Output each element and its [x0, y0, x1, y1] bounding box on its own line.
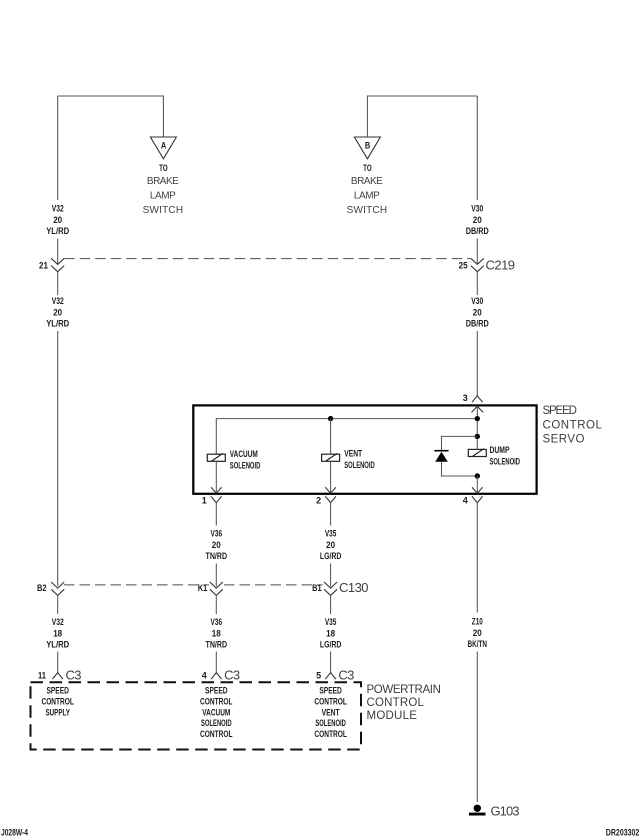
svg-text:MODULE: MODULE [367, 710, 419, 722]
svg-text:DUMP: DUMP [490, 445, 510, 455]
label POWERTRAIN CONTROL MODULE [367, 684, 443, 722]
svg-text:1: 1 [202, 496, 207, 506]
svg-text:SERVO: SERVO [543, 434, 587, 446]
svg-text:3: 3 [463, 393, 468, 403]
triangle B (to brake lamp switch) [354, 137, 380, 159]
diode CR1 anode triangle [435, 452, 448, 462]
connector C130 cavity B1 chevron [324, 582, 337, 595]
pin 3 fork connector [472, 396, 483, 402]
svg-text:20: 20 [473, 628, 482, 638]
svg-text:B2: B2 [37, 583, 47, 593]
svg-text:POWERTRAIN: POWERTRAIN [367, 684, 443, 696]
svg-text:SPEED: SPEED [543, 405, 579, 417]
wire [330, 564, 332, 587]
svg-text:V32: V32 [52, 617, 64, 627]
svg-text:20: 20 [53, 215, 62, 225]
triangle A (to brake lamp switch) [150, 137, 176, 159]
svg-text:SWITCH: SWITCH [347, 205, 389, 216]
wire Z10 to ground [476, 652, 478, 803]
svg-text:CONTROL: CONTROL [200, 729, 233, 739]
svg-text:V36: V36 [211, 529, 223, 539]
svg-text:BRAKE: BRAKE [351, 176, 384, 187]
dump solenoid coil symbol [468, 449, 486, 457]
svg-text:SOLENOID: SOLENOID [490, 457, 521, 467]
ground G103 symbol [469, 805, 486, 816]
node junction dot at dump bus [475, 416, 480, 421]
label V36 20 TN/RD [206, 529, 228, 562]
node junction dot diode top [475, 434, 480, 439]
wire servo internal bus horizontal [216, 419, 477, 455]
svg-text:21: 21 [39, 261, 48, 271]
arrowhead into box at pin 3 [472, 406, 484, 412]
svg-text:YL/RD: YL/RD [46, 226, 69, 236]
wire [476, 239, 478, 264]
wire [215, 564, 217, 587]
label SPEED CONTROL VACUUM SOLENOID CONTROL [200, 686, 233, 740]
svg-text:DR203302: DR203302 [606, 828, 640, 838]
svg-text:V35: V35 [325, 529, 337, 539]
wire top-left horizontal V32 to triangle A [58, 96, 164, 137]
svg-text:11: 11 [38, 671, 46, 681]
connector C130 cavity B2 chevron [51, 582, 64, 595]
svg-text:TN/RD: TN/RD [206, 551, 228, 561]
label V30 20 DB/RD (below C219) [466, 296, 489, 329]
C130 dashed line right segment [224, 584, 323, 586]
wire vent branch vertical [330, 419, 332, 455]
svg-text:VACUUM: VACUUM [202, 707, 230, 717]
connector C130 cavity K1 chevron [210, 582, 223, 595]
arrowhead at box edge pin 2 [325, 487, 336, 493]
arrowhead at box edge pin 4 [472, 487, 483, 493]
wire left vertical V32 middle [57, 272, 59, 295]
label V30 20 DB/RD (above C219) [466, 204, 489, 237]
wire pin4 Z10 upper [476, 503, 478, 613]
wire [57, 239, 59, 264]
svg-text:20: 20 [212, 540, 221, 550]
svg-text:V35: V35 [325, 617, 337, 627]
svg-text:BK/TN: BK/TN [468, 639, 488, 649]
svg-text:20: 20 [53, 307, 62, 317]
svg-text:SPEED: SPEED [205, 686, 228, 696]
svg-text:20: 20 [473, 215, 482, 225]
svg-text:SPEED: SPEED [319, 686, 342, 696]
svg-text:5: 5 [316, 671, 321, 681]
svg-text:TO: TO [363, 163, 372, 173]
wire pin2 V35 below C130 [330, 595, 332, 614]
svg-text:DB/RD: DB/RD [466, 226, 489, 236]
svg-text:K1: K1 [198, 583, 208, 593]
label VACUUM SOLENOID [230, 449, 261, 470]
label V35 20 LG/RD [320, 529, 342, 562]
wire [57, 652, 59, 673]
node junction dot diode bottom [475, 473, 480, 478]
label V32 18 YL/RD [46, 617, 69, 650]
svg-text:V30: V30 [471, 296, 483, 306]
label V36 18 TN/RD [206, 617, 228, 650]
C130 dashed line left segment [64, 584, 209, 586]
svg-text:B1: B1 [312, 583, 322, 593]
svg-text:LG/RD: LG/RD [320, 551, 342, 561]
svg-text:V32: V32 [52, 296, 64, 306]
svg-text:YL/RD: YL/RD [46, 640, 69, 650]
svg-text:LAMP: LAMP [354, 191, 381, 202]
wire vacuum solenoid lower lead [215, 461, 217, 493]
svg-text:4: 4 [463, 496, 468, 506]
svg-text:LAMP: LAMP [150, 191, 177, 202]
C3 fork connector cavity 4 [211, 673, 222, 680]
svg-text:V30: V30 [471, 204, 483, 214]
label V35 18 LG/RD [320, 617, 342, 650]
svg-text:C3: C3 [66, 668, 84, 683]
svg-text:2: 2 [316, 496, 321, 506]
svg-text:TN/RD: TN/RD [206, 640, 228, 650]
svg-text:B: B [365, 141, 371, 151]
label TO BRAKE LAMP SWITCH (left) [143, 163, 185, 216]
svg-text:SUPPLY: SUPPLY [45, 707, 70, 717]
C3 fork connector cavity 5 [325, 673, 336, 680]
svg-text:4: 4 [202, 671, 207, 681]
svg-text:DB/RD: DB/RD [466, 319, 489, 329]
vacuum solenoid coil symbol [207, 453, 225, 461]
label TO BRAKE LAMP SWITCH (right) [347, 163, 389, 216]
svg-text:SWITCH: SWITCH [143, 205, 185, 216]
node junction dot at vent branch [328, 416, 333, 421]
connector C219 cavity 21 chevron [51, 258, 64, 271]
C3 fork connector cavity 11 [52, 673, 63, 680]
wire diode top link [442, 436, 478, 450]
wire left V32 below C130 [57, 595, 59, 614]
wire [215, 652, 217, 673]
svg-text:V32: V32 [52, 204, 64, 214]
wire top-right horizontal V30 to triangle B [367, 96, 477, 137]
C219 dashed line [64, 258, 470, 260]
svg-text:J028W-4: J028W-4 [1, 828, 28, 838]
wire right vertical V30 to servo pin 3 [476, 331, 478, 396]
wire right vertical V30 upper [476, 96, 478, 200]
label SPEED CONTROL SERVO [543, 405, 604, 446]
label DUMP SOLENOID [490, 445, 521, 467]
svg-text:CONTROL: CONTROL [367, 697, 426, 709]
wire left vertical V32 upper [57, 96, 59, 200]
powertrain control module box (dashed) [31, 682, 362, 749]
svg-text:CONTROL: CONTROL [41, 696, 74, 706]
svg-text:TO: TO [159, 163, 168, 173]
diode CR1 cathode bar [434, 450, 448, 452]
vent solenoid coil symbol [322, 453, 340, 461]
label V32 20 YL/RD (above C219) [46, 204, 69, 237]
pin 4 fork connector below box [472, 496, 483, 502]
wire pin1 lead [215, 503, 217, 526]
label SPEED CONTROL VENT SOLENOID CONTROL [314, 686, 347, 740]
svg-text:C3: C3 [224, 668, 242, 683]
pin 1 fork connector below box [211, 496, 222, 502]
svg-text:VENT: VENT [344, 449, 362, 459]
svg-text:CONTROL: CONTROL [314, 729, 347, 739]
svg-text:18: 18 [326, 628, 335, 638]
label VENT SOLENOID [344, 449, 375, 470]
svg-text:20: 20 [326, 540, 335, 550]
svg-text:SOLENOID: SOLENOID [230, 460, 261, 470]
arrowhead at box edge pin 1 [211, 487, 222, 493]
svg-text:20: 20 [473, 307, 482, 317]
svg-text:18: 18 [53, 628, 62, 638]
label SPEED CONTROL SUPPLY [41, 686, 74, 718]
svg-text:A: A [161, 141, 167, 151]
svg-text:G103: G103 [491, 804, 522, 819]
svg-text:Z10: Z10 [472, 617, 483, 627]
svg-text:BRAKE: BRAKE [147, 176, 180, 187]
svg-text:18: 18 [212, 628, 221, 638]
svg-text:V36: V36 [211, 617, 223, 627]
svg-text:C130: C130 [339, 580, 370, 595]
wire pin1 V36 below C130 [215, 595, 217, 614]
wire diode bottom link [442, 462, 478, 476]
svg-text:VACUUM: VACUUM [230, 449, 258, 459]
wire vent solenoid lower lead [330, 461, 332, 493]
pin 2 fork connector below box [325, 496, 336, 502]
connector C219 cavity 25 chevron [471, 258, 484, 271]
svg-text:LG/RD: LG/RD [320, 640, 342, 650]
svg-text:SOLENOID: SOLENOID [315, 718, 346, 728]
wire servo dump branch vertical [476, 406, 478, 449]
svg-text:C3: C3 [338, 668, 356, 683]
label Z10 20 BK/TN [468, 617, 488, 650]
svg-text:SOLENOID: SOLENOID [344, 460, 375, 470]
svg-text:CONTROL: CONTROL [200, 696, 233, 706]
svg-text:SOLENOID: SOLENOID [201, 718, 232, 728]
svg-text:CONTROL: CONTROL [314, 696, 347, 706]
label V32 20 YL/RD (below C219) [46, 296, 69, 329]
svg-text:25: 25 [459, 261, 468, 271]
speed control servo box [193, 405, 536, 493]
wire pin2 lead [330, 503, 332, 526]
wire [330, 652, 332, 673]
wire left vertical V32 long run [57, 331, 59, 586]
svg-text:CONTROL: CONTROL [543, 420, 604, 432]
svg-text:C219: C219 [486, 258, 517, 273]
svg-text:YL/RD: YL/RD [46, 319, 69, 329]
svg-text:VENT: VENT [322, 707, 340, 717]
wire right vertical V30 middle [476, 272, 478, 295]
svg-text:SPEED: SPEED [46, 686, 69, 696]
wire dump solenoid lower lead [476, 476, 478, 493]
